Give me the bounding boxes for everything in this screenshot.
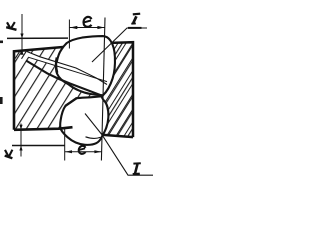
- scan tick left edge upper: [0, 41, 3, 44]
- bold staked seat edge on ball 1 left: [56, 58, 57, 73]
- staked rim arc at plug 2 bottom: [86, 137, 101, 139]
- leader to ball 1: [92, 28, 147, 62]
- top tangent line (flattened plug top level): [7, 37, 68, 39]
- leader to ball 2: [85, 114, 153, 176]
- dimension e (bottom): extension line: [64, 128, 66, 161]
- leader shelf thick part (ball 1): [128, 27, 142, 29]
- channel white band: [27, 52, 107, 85]
- block hatched section: [14, 41, 133, 137]
- dimension k (top): dimension line: [21, 14, 23, 51]
- block bottom edge left (with staked bar): [14, 127, 73, 130]
- dimension e (top): extension line: [68, 20, 70, 49]
- centerline (hole axis): [101, 18, 105, 161]
- dimension k (bottom): label: [5, 150, 13, 159]
- dimension k (bottom): dimension line: [20, 124, 22, 157]
- block border: top-left edge: [14, 47, 63, 130]
- dimension k (top): label: [6, 22, 16, 30]
- dimension e (top): dimension line: [69, 27, 104, 29]
- ball 2 (bottom plug, deformed): [60, 96, 108, 145]
- dimension e (bottom): arrows: [65, 150, 72, 153]
- denser hatch in right strip: [99, 42, 133, 137]
- dimension e (top): arrows: [70, 26, 78, 29]
- dimension e (bottom): dimension line: [65, 151, 102, 153]
- channel lower wall: [26, 61, 103, 96]
- bold seat chamfer on plug 2 upper-left: [65, 98, 76, 106]
- bottom tangent line (flattened plug bottom level): [12, 145, 65, 147]
- dimension k (top): arrows: [20, 34, 23, 39]
- label I-bar (ball 1 callout): [131, 14, 140, 24]
- scan tick left edge middle: [0, 97, 3, 104]
- channel upper wall: [27, 52, 107, 85]
- hatch stubs left of channel mouth: [15, 51, 20, 58]
- channel lower wall thin: [29, 57, 107, 81]
- label I (ball 2 callout): [133, 163, 141, 174]
- block border: top-right edge and right side: [111, 42, 134, 137]
- dimension e (top): label: [83, 17, 91, 27]
- dimension e (bottom): label: [79, 146, 86, 154]
- dimension k (bottom): arrows: [19, 125, 22, 130]
- ball 1 (top plug, staked flat): [56, 36, 115, 95]
- block bottom edge right: [102, 135, 134, 137]
